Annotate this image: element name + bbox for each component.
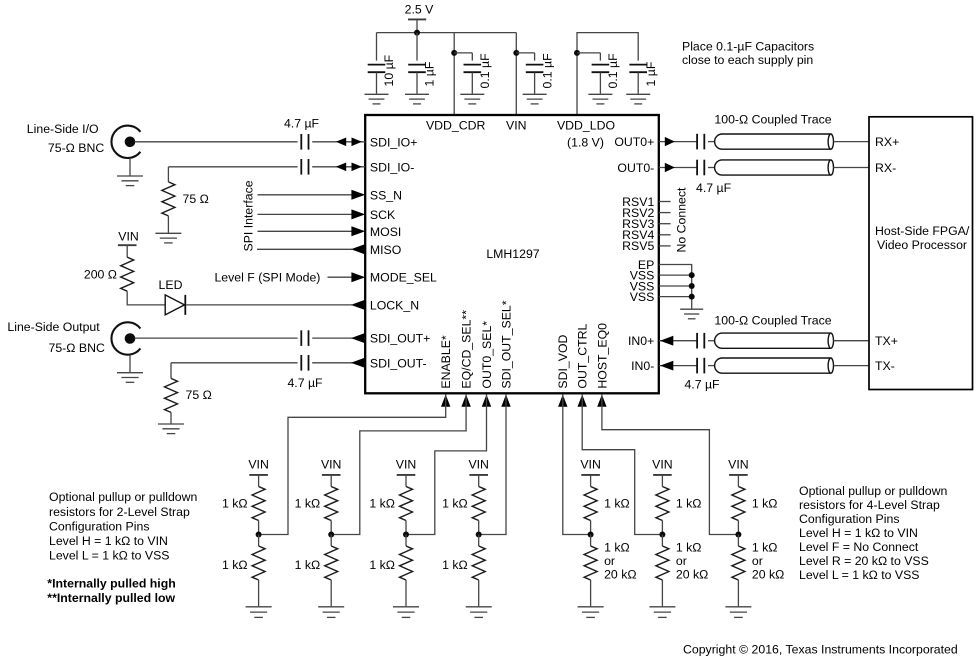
ground strap 1 xyxy=(246,606,272,608)
svg-text:VDD_CDR: VDD_CDR xyxy=(426,119,486,133)
wire VIN to R6a xyxy=(661,475,663,487)
svg-text:SDI_VOD: SDI_VOD xyxy=(556,334,570,388)
coupled trace on OUT0+ xyxy=(715,134,831,149)
svg-text:Level F (SPI Mode): Level F (SPI Mode) xyxy=(214,271,320,285)
wire C9 to pin SDI_OUT+ xyxy=(312,337,365,339)
wire 2.5V to bus xyxy=(416,19,418,32)
svg-text:4.7 µF: 4.7 µF xyxy=(696,181,732,195)
capacitor C9 4.7 uF xyxy=(300,330,302,346)
wire IN0+ cap to trace xyxy=(708,340,716,342)
svg-text:1 kΩ: 1 kΩ xyxy=(676,541,702,555)
wire MODE_SEL xyxy=(328,276,353,278)
FPGA box xyxy=(869,117,973,390)
wire ENABLE* to strap resistors xyxy=(259,395,446,535)
svg-text:1 kΩ: 1 kΩ xyxy=(604,541,630,555)
svg-text:SDI_OUT+: SDI_OUT+ xyxy=(370,332,430,346)
wire IN0+ stub xyxy=(659,340,697,342)
svg-text:20 kΩ: 20 kΩ xyxy=(604,567,636,581)
wire VIN to R5a xyxy=(590,475,592,487)
arrow out of LOCK_N xyxy=(351,300,365,310)
arrow out of SDI_OUT+ xyxy=(351,333,365,343)
resistor R3a 1 kOhm xyxy=(400,487,413,521)
svg-text:Level F = No Connect: Level F = No Connect xyxy=(799,540,919,554)
resistor R2 200 ohm xyxy=(121,257,134,291)
svg-text:OUT0-: OUT0- xyxy=(617,161,654,175)
svg-text:1 µF: 1 µF xyxy=(644,61,658,86)
svg-text:No Connect: No Connect xyxy=(675,187,689,253)
wire VIN to R2a xyxy=(330,475,332,487)
resistor R3 75 ohm xyxy=(170,363,172,379)
wire SDI_IO+ to cap xyxy=(135,141,298,143)
wire OUT0+ cap to trace xyxy=(708,141,716,143)
wire VSS xyxy=(659,296,692,298)
wire trace to FPGA IN0+ xyxy=(833,340,869,342)
ground strap 2 xyxy=(318,606,344,608)
svg-text:75-Ω BNC: 75-Ω BNC xyxy=(49,341,105,355)
arrow into SCK xyxy=(351,209,365,219)
wire SDI_OUT+ to cap xyxy=(135,337,298,339)
capacitor 4.7uF on IN0+ xyxy=(696,333,698,349)
junction strap 4 xyxy=(476,532,482,538)
svg-text:VIN: VIN xyxy=(396,457,417,471)
wire EQ/CD_SEL** to strap resistors xyxy=(331,395,466,535)
capacitor 4.7uF on OUT0- xyxy=(696,160,698,176)
svg-text:100-Ω Coupled Trace: 100-Ω Coupled Trace xyxy=(714,113,831,127)
junction strap 6 xyxy=(659,532,665,538)
svg-text:resistors for 2-Level Strap: resistors for 2-Level Strap xyxy=(49,505,190,519)
svg-text:VIN: VIN xyxy=(468,457,489,471)
svg-text:TX+: TX+ xyxy=(875,334,898,348)
wire VDD_LDO top xyxy=(577,33,638,115)
wire EP xyxy=(659,265,692,309)
svg-text:1 kΩ: 1 kΩ xyxy=(222,496,248,510)
svg-text:RX+: RX+ xyxy=(875,135,899,149)
junction xyxy=(513,50,519,56)
ground for J2 xyxy=(117,372,143,374)
svg-text:2.5 V: 2.5 V xyxy=(405,2,435,16)
wire SCK xyxy=(258,213,353,215)
junction xyxy=(451,50,457,56)
svg-text:SDI_IO+: SDI_IO+ xyxy=(370,135,418,149)
svg-text:IN0+: IN0+ xyxy=(628,334,654,348)
ground for J1 xyxy=(117,175,143,177)
svg-text:VIN: VIN xyxy=(506,119,527,133)
svg-text:Video Processor: Video Processor xyxy=(877,238,967,252)
svg-text:LOCK_N: LOCK_N xyxy=(370,298,419,312)
resistor R1b xyxy=(258,535,260,547)
resistor R5a 1 kOhm xyxy=(584,487,597,521)
svg-text:1 kΩ: 1 kΩ xyxy=(676,496,702,510)
BNC J2 line-side output xyxy=(111,322,140,354)
capacitor C5 0.1 uF xyxy=(577,52,600,54)
svg-text:EQ/CD_SEL**: EQ/CD_SEL** xyxy=(460,310,474,389)
svg-text:OUT_CTRL: OUT_CTRL xyxy=(576,324,590,389)
wire OUT_CTRL to strap resistors xyxy=(582,395,662,535)
coupled trace on OUT0- xyxy=(715,160,831,175)
resistor R7b xyxy=(737,535,739,547)
svg-text:IN0-: IN0- xyxy=(631,359,654,373)
svg-text:1 kΩ: 1 kΩ xyxy=(222,558,248,572)
svg-text:20 kΩ: 20 kΩ xyxy=(676,567,708,581)
wire VIN to R1a xyxy=(258,475,260,487)
svg-text:or: or xyxy=(752,554,763,568)
LED D1 xyxy=(165,295,184,315)
svg-text:VSS: VSS xyxy=(630,290,655,304)
wire HOST_EQ0 to strap resistors xyxy=(602,395,739,535)
wire SDI_OUT_SEL* to strap resistors xyxy=(479,395,506,535)
svg-text:100-Ω Coupled Trace: 100-Ω Coupled Trace xyxy=(714,314,831,328)
svg-text:resistors for 4-Level Strap: resistors for 4-Level Strap xyxy=(799,498,940,512)
BNC J1 line-side I/O xyxy=(111,126,140,158)
svg-text:SPI Interface: SPI Interface xyxy=(241,180,255,251)
svg-text:0.1 µF: 0.1 µF xyxy=(478,53,492,89)
svg-text:200 Ω: 200 Ω xyxy=(84,268,117,282)
svg-text:SDI_IO-: SDI_IO- xyxy=(370,160,414,174)
resistor R5b xyxy=(590,535,592,547)
capacitor C8 4.7 uF xyxy=(300,159,302,175)
svg-text:20 kΩ: 20 kΩ xyxy=(752,567,784,581)
wire VSS xyxy=(659,274,692,276)
wire SS_N xyxy=(258,194,353,196)
svg-text:1 kΩ: 1 kΩ xyxy=(604,496,630,510)
resistor R4b xyxy=(478,535,480,547)
resistor R1 75 ohm xyxy=(167,167,169,182)
wire OUT0_SEL* to strap resistors xyxy=(406,395,487,535)
arrow into pin EQ/CD_SEL** xyxy=(461,395,470,407)
wire MOSI xyxy=(258,230,353,232)
svg-text:SS_N: SS_N xyxy=(370,188,402,202)
ground for VSS xyxy=(680,308,703,310)
svg-text:Line-Side I/O: Line-Side I/O xyxy=(27,122,99,136)
wire SDI_IO- to cap xyxy=(168,166,297,168)
wire IN0- cap to trace xyxy=(708,365,716,367)
svg-text:OUT0_SEL*: OUT0_SEL* xyxy=(480,321,494,389)
svg-text:LED: LED xyxy=(159,278,183,292)
wire MISO xyxy=(257,248,352,250)
capacitor C2 1 uF xyxy=(416,33,418,61)
junction xyxy=(574,50,580,56)
junction xyxy=(689,283,695,289)
svg-text:1 kΩ: 1 kΩ xyxy=(442,558,468,572)
svg-text:Level H = 1 kΩ to VIN: Level H = 1 kΩ to VIN xyxy=(799,526,918,540)
svg-text:1 kΩ: 1 kΩ xyxy=(295,496,321,510)
svg-text:75 Ω: 75 Ω xyxy=(183,192,209,206)
svg-text:MODE_SEL: MODE_SEL xyxy=(370,271,437,285)
svg-text:(1.8 V): (1.8 V) xyxy=(567,135,604,149)
node 2.5V bus xyxy=(377,32,517,34)
wire OUT0+ stub xyxy=(659,141,697,143)
svg-text:4.7 µF: 4.7 µF xyxy=(287,376,323,390)
junction xyxy=(689,272,695,278)
resistor R3b xyxy=(405,535,407,547)
junction strap 7 xyxy=(735,532,741,538)
svg-text:1 µF: 1 µF xyxy=(423,61,437,86)
svg-text:75-Ω BNC: 75-Ω BNC xyxy=(48,141,104,155)
wire R2 to LED xyxy=(127,291,165,305)
svg-text:ENABLE*: ENABLE* xyxy=(439,335,453,389)
arrow into SS_N xyxy=(351,190,365,200)
capacitor C7 4.7 uF xyxy=(300,134,302,150)
arrow into MOSI xyxy=(351,226,365,236)
arrow out of MISO xyxy=(351,244,365,254)
coupled trace on IN0- xyxy=(715,358,831,373)
capacitor 4.7uF on OUT0+ xyxy=(696,134,698,150)
ground strap 5 xyxy=(578,606,604,608)
svg-text:Level L = 1 kΩ to VSS: Level L = 1 kΩ to VSS xyxy=(799,568,920,582)
wire VIN to R4a xyxy=(478,475,480,487)
resistor R7a 1 kOhm xyxy=(732,487,745,521)
bidirectional arrow SDI_IO+ xyxy=(336,138,346,147)
ground strap 7 xyxy=(725,606,751,608)
wire VIN to R7a xyxy=(737,475,739,487)
svg-text:1 kΩ: 1 kΩ xyxy=(295,558,321,572)
wire C8 to pin SDI_IO- xyxy=(312,166,365,168)
svg-text:Level H = 1 kΩ to VIN: Level H = 1 kΩ to VIN xyxy=(49,534,168,548)
svg-text:**Internally pulled low: **Internally pulled low xyxy=(47,591,175,605)
svg-text:OUT0+: OUT0+ xyxy=(614,135,654,149)
svg-text:Optional pullup or pulldown: Optional pullup or pulldown xyxy=(49,490,198,504)
wire trace to FPGA OUT0+ xyxy=(833,141,869,143)
svg-text:Line-Side Output: Line-Side Output xyxy=(7,320,100,334)
svg-text:TX-: TX- xyxy=(875,359,895,373)
arrow into pin HOST_EQ0 xyxy=(597,395,606,407)
svg-text:*Internally pulled high: *Internally pulled high xyxy=(47,577,175,591)
resistor R6a 1 kOhm xyxy=(656,487,669,521)
junction strap 5 xyxy=(588,532,594,538)
svg-text:4.7 µF: 4.7 µF xyxy=(684,378,720,392)
arrow OUT0+ xyxy=(665,137,675,146)
capacitor 4.7uF on IN0- xyxy=(696,358,698,374)
svg-text:1 kΩ: 1 kΩ xyxy=(369,496,395,510)
svg-text:VIN: VIN xyxy=(652,457,673,471)
junction strap 3 xyxy=(403,532,409,538)
ground strap 6 xyxy=(649,606,675,608)
arrow out of SDI_OUT- xyxy=(351,358,365,368)
svg-text:SCK: SCK xyxy=(370,208,396,222)
svg-text:VIN: VIN xyxy=(580,457,601,471)
arrow into MODE_SEL xyxy=(351,272,365,282)
svg-text:VIN: VIN xyxy=(248,457,269,471)
wire IN0- stub xyxy=(659,365,697,367)
svg-text:1 kΩ: 1 kΩ xyxy=(369,558,395,572)
svg-text:1 kΩ: 1 kΩ xyxy=(752,541,778,555)
resistor R6b xyxy=(661,535,663,547)
wire VIN to R2 xyxy=(126,245,128,257)
wire trace to FPGA OUT0- xyxy=(833,167,869,169)
arrow IN0+ xyxy=(660,336,673,346)
svg-text:MOSI: MOSI xyxy=(370,225,401,239)
capacitor C4 0.1 uF xyxy=(516,52,534,54)
arrow into pin SDI_VOD xyxy=(558,395,567,407)
svg-text:0.1 µF: 0.1 µF xyxy=(606,53,620,89)
capacitor C10 4.7 uF xyxy=(300,355,302,371)
junction xyxy=(689,294,695,300)
resistor R1a 1 kOhm xyxy=(252,487,265,521)
wire SDI_OUT- to cap xyxy=(171,362,298,364)
svg-text:LMH1297: LMH1297 xyxy=(486,247,539,261)
svg-text:Level L = 1 kΩ to VSS: Level L = 1 kΩ to VSS xyxy=(49,548,170,562)
wire trace to FPGA IN0- xyxy=(833,365,869,367)
svg-text:RX-: RX- xyxy=(875,161,896,175)
junction xyxy=(414,30,420,36)
ground strap 3 xyxy=(393,606,419,608)
wire C10 to pin SDI_OUT- xyxy=(312,362,365,364)
arrow into pin OUT_CTRL xyxy=(578,395,587,407)
wire VSS xyxy=(659,285,692,287)
wire OUT0- cap to trace xyxy=(708,167,716,169)
svg-text:Optional pullup or pulldown: Optional pullup or pulldown xyxy=(799,484,948,498)
ground for R1 xyxy=(155,232,181,234)
svg-text:1 kΩ: 1 kΩ xyxy=(752,496,778,510)
wire LED to LOCK_N xyxy=(186,304,352,306)
wire VDD_CDR drop xyxy=(453,33,455,115)
svg-text:or: or xyxy=(676,554,687,568)
svg-text:Copyright © 2016, Texas Instru: Copyright © 2016, Texas Instruments Inco… xyxy=(683,643,958,657)
ground for R3 xyxy=(158,423,184,425)
svg-text:4.7 µF: 4.7 µF xyxy=(284,117,320,131)
svg-text:or: or xyxy=(604,554,615,568)
capacitor C3 0.1 uF xyxy=(454,52,472,54)
IC U1 LMH1297 xyxy=(365,115,659,393)
svg-text:SDI_OUT_SEL*: SDI_OUT_SEL* xyxy=(499,300,513,388)
svg-text:Host-Side FPGA/: Host-Side FPGA/ xyxy=(875,224,970,238)
capacitor C6 1 uF xyxy=(629,64,647,66)
wire SDI_VOD to strap resistors xyxy=(563,395,591,535)
arrow into pin OUT0_SEL* xyxy=(482,395,491,407)
arrow OUT0- xyxy=(665,163,675,172)
svg-text:VIN: VIN xyxy=(728,457,749,471)
resistor R4a 1 kOhm xyxy=(472,487,485,521)
svg-text:Level R = 20 kΩ to VSS: Level R = 20 kΩ to VSS xyxy=(799,554,929,568)
svg-text:VIN: VIN xyxy=(321,457,342,471)
wire VIN drop xyxy=(515,33,517,115)
svg-text:0.1 µF: 0.1 µF xyxy=(540,53,554,89)
svg-text:10 µF: 10 µF xyxy=(382,54,396,86)
resistor R2a 1 kOhm xyxy=(325,487,338,521)
arrow into pin ENABLE* xyxy=(441,395,450,407)
svg-text:75 Ω: 75 Ω xyxy=(186,388,212,402)
svg-text:1 kΩ: 1 kΩ xyxy=(442,496,468,510)
arrow IN0- xyxy=(660,361,673,371)
wire C7 to pin SDI_IO+ xyxy=(312,141,365,143)
svg-text:HOST_EQ0: HOST_EQ0 xyxy=(595,323,609,389)
svg-text:VDD_LDO: VDD_LDO xyxy=(557,119,615,133)
svg-text:Place 0.1-µF Capacitors: Place 0.1-µF Capacitors xyxy=(682,39,814,53)
junction strap 2 xyxy=(328,532,334,538)
junction strap 1 xyxy=(256,532,262,538)
wire OUT0- stub xyxy=(659,167,697,169)
bidirectional arrow SDI_IO- xyxy=(336,163,346,172)
ground strap 4 xyxy=(466,606,492,608)
svg-text:close to each supply pin: close to each supply pin xyxy=(682,53,813,67)
svg-text:RSV5: RSV5 xyxy=(622,239,654,253)
svg-text:VIN: VIN xyxy=(118,230,139,244)
resistor R2b xyxy=(330,535,332,547)
svg-text:MISO: MISO xyxy=(370,243,401,257)
coupled trace on IN0+ xyxy=(715,333,831,348)
wire VIN to R3a xyxy=(405,475,407,487)
arrow into pin SDI_OUT_SEL* xyxy=(501,395,510,407)
svg-text:SDI_OUT-: SDI_OUT- xyxy=(370,356,427,370)
svg-text:Configuration Pins: Configuration Pins xyxy=(49,519,149,533)
capacitor C1 10 uF xyxy=(376,33,378,61)
svg-text:Configuration Pins: Configuration Pins xyxy=(799,512,899,526)
